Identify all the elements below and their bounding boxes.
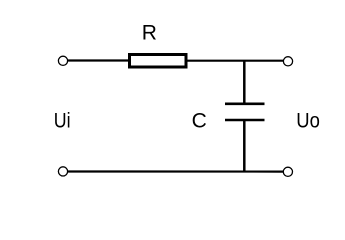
wire top-left horizontal (input to resistor)	[67, 59, 129, 61]
terminal top-right (Uo +)	[283, 57, 292, 66]
capacitor C1 top plate	[225, 103, 265, 106]
wire bottom horizontal (return path)	[67, 170, 284, 172]
terminal bottom-left (Ui -)	[58, 167, 67, 176]
terminal top-left (Ui +)	[58, 56, 67, 65]
svg-text:Ui: Ui	[54, 110, 71, 133]
svg-text:R: R	[142, 22, 157, 45]
wire vertical capacitor bottom to return path	[243, 120, 246, 172]
svg-text:Uo: Uo	[296, 110, 320, 133]
resistor R1 body	[130, 55, 187, 68]
capacitor C1 bottom plate	[225, 119, 265, 122]
svg-text:C: C	[192, 110, 207, 133]
terminal bottom-right (Uo -)	[283, 167, 292, 176]
wire top-right horizontal (resistor to output, through node)	[186, 60, 284, 62]
wire vertical node to capacitor top	[243, 61, 246, 103]
